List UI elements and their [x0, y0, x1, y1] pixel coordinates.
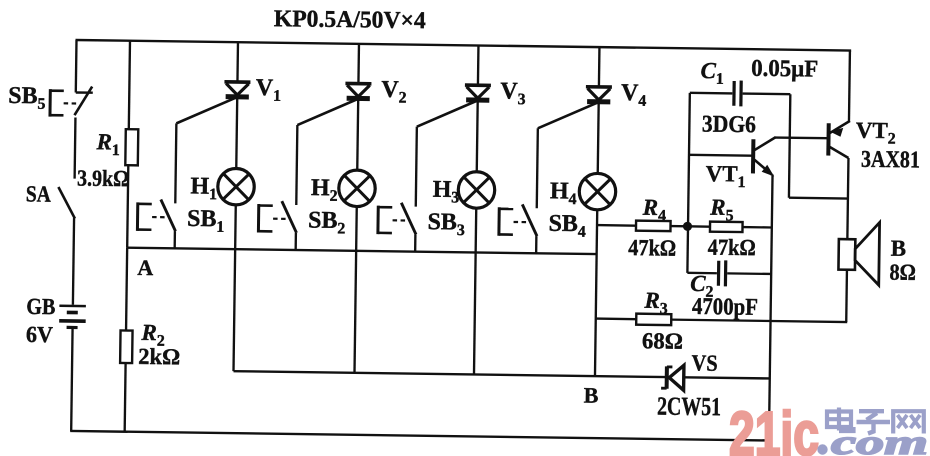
svg-text:3AX81: 3AX81 [861, 147, 920, 174]
lamp H3 [458, 172, 495, 209]
svg-text:2kΩ: 2kΩ [138, 344, 180, 370]
watermark dot [817, 444, 827, 454]
svg-text:47kΩ: 47kΩ [628, 235, 676, 261]
wire left column upper [75, 40, 78, 92]
resistor R3 [636, 314, 671, 325]
resistor R5 [710, 222, 743, 232]
wire bottom rail [70, 431, 770, 441]
speaker B [838, 222, 879, 285]
wire column V4 from top rail [598, 47, 601, 85]
wire gate to SB2 [296, 125, 297, 205]
wire R1 to node A [127, 165, 128, 247]
transistor VT1 [689, 136, 776, 176]
wire emitter column [769, 174, 773, 440]
wire speaker bottom [845, 270, 848, 322]
wire SA to GB [73, 218, 74, 305]
pushbutton SB3 [378, 202, 417, 234]
svg-text:8Ω: 8Ω [889, 260, 916, 285]
svg-text:0.05μF: 0.05μF [751, 56, 818, 83]
svg-text:3.9kΩ: 3.9kΩ [77, 166, 129, 192]
svg-text:B: B [584, 382, 599, 407]
thyristor V4 [538, 86, 612, 129]
switch SB5 [50, 86, 93, 117]
svg-text:VS: VS [691, 350, 717, 375]
wire lamp H1 to B rail [234, 205, 236, 371]
wire R3 to speaker bottom [671, 320, 847, 322]
wire V3 cathode to lamp H3 [476, 102, 479, 172]
wire H4 column to R4 [597, 224, 636, 227]
wire SB1 to node A rail [173, 231, 176, 248]
wire V1 cathode to lamp H1 [235, 99, 238, 169]
wire lamp H4 to B rail [595, 210, 597, 376]
watermark CJK dian [827, 408, 854, 432]
wire R2 to bottom rail [123, 363, 126, 432]
wire gate to SB1 [175, 123, 176, 203]
wire lamp H2 to B rail [354, 207, 356, 373]
junction dot R4-R5 [683, 222, 692, 231]
wire lamp H3 to B rail [474, 208, 476, 374]
wire C2 left [687, 272, 716, 275]
svg-text:47kΩ: 47kΩ [708, 235, 756, 261]
pushbutton SB1 [137, 199, 176, 231]
resistor R2 [120, 330, 132, 363]
wire V2 cathode to lamp H2 [356, 100, 359, 170]
lamp H4 [579, 173, 616, 210]
wire C1 left [690, 92, 732, 95]
battery GB [59, 306, 86, 328]
svg-text:KP0.5A/50V×4: KP0.5A/50V×4 [274, 6, 426, 34]
svg-text:2CW51: 2CW51 [657, 391, 721, 421]
svg-text:6V: 6V [26, 322, 54, 347]
svg-text:68Ω: 68Ω [642, 328, 683, 354]
wire GB to bottom rail [71, 327, 72, 430]
wire SB4 to node A rail [535, 236, 538, 253]
wire to speaker node [789, 197, 848, 200]
svg-text:4700pF: 4700pF [692, 294, 758, 321]
wire VT1 collector to VT2 base [775, 136, 827, 139]
svg-text:21ic: 21ic [729, 400, 819, 456]
wire SB3 to node A rail [414, 234, 417, 251]
capacitor C2 [718, 260, 725, 286]
wire V4 cathode to lamp H4 [597, 104, 600, 174]
svg-text:3DG6: 3DG6 [702, 112, 756, 139]
pushbutton SB2 [258, 201, 297, 233]
wire column V2 from top rail [357, 44, 360, 82]
zener diode VS [661, 365, 684, 390]
lamp H1 [218, 168, 255, 205]
resistor R4 [636, 221, 671, 231]
thyristor V2 [297, 83, 371, 126]
wire junction to R5 [688, 225, 710, 228]
svg-text:B: B [891, 236, 907, 261]
wire H4 column to R3 [596, 317, 636, 320]
wire C2 right [727, 272, 771, 275]
wire VT2 collector to speaker [847, 158, 848, 239]
thyristor V3 [417, 84, 491, 127]
wire column V3 from top rail [477, 45, 480, 83]
wire C1 right [743, 92, 791, 95]
capacitor C1 [734, 80, 741, 106]
resistor R1 [125, 129, 138, 165]
svg-text:A: A [137, 255, 153, 280]
watermark CJK wang [893, 411, 924, 433]
wire node B rail left [234, 371, 667, 377]
wire A to R2 [126, 248, 127, 331]
wire node B rail right [684, 377, 770, 378]
wire column V1 from top rail [236, 42, 239, 80]
watermark CJK zi [857, 411, 891, 433]
wire gate to SB4 [537, 128, 538, 208]
svg-text:SA: SA [26, 181, 52, 206]
wire C1 right vertical [789, 94, 790, 197]
wire top rail [76, 40, 852, 51]
wire VT2 emitter to top rail [848, 51, 851, 121]
wire SB2 to node A rail [294, 233, 297, 250]
wire R4 to junction [671, 225, 688, 228]
wire R5 to emitter column [743, 226, 772, 229]
lamp H2 [339, 170, 376, 207]
wire gate to SB3 [416, 127, 417, 207]
thyristor V1 [176, 81, 250, 124]
wire node A rail [127, 248, 596, 254]
svg-text:GB: GB [26, 294, 55, 319]
wire R1 column top [129, 41, 130, 129]
transistor VT2 [828, 121, 850, 158]
switch SA [58, 187, 75, 219]
wire C1 left vertical [687, 93, 689, 273]
pushbutton SB4 [499, 204, 538, 236]
wire SB5 to SA [73, 117, 76, 178]
